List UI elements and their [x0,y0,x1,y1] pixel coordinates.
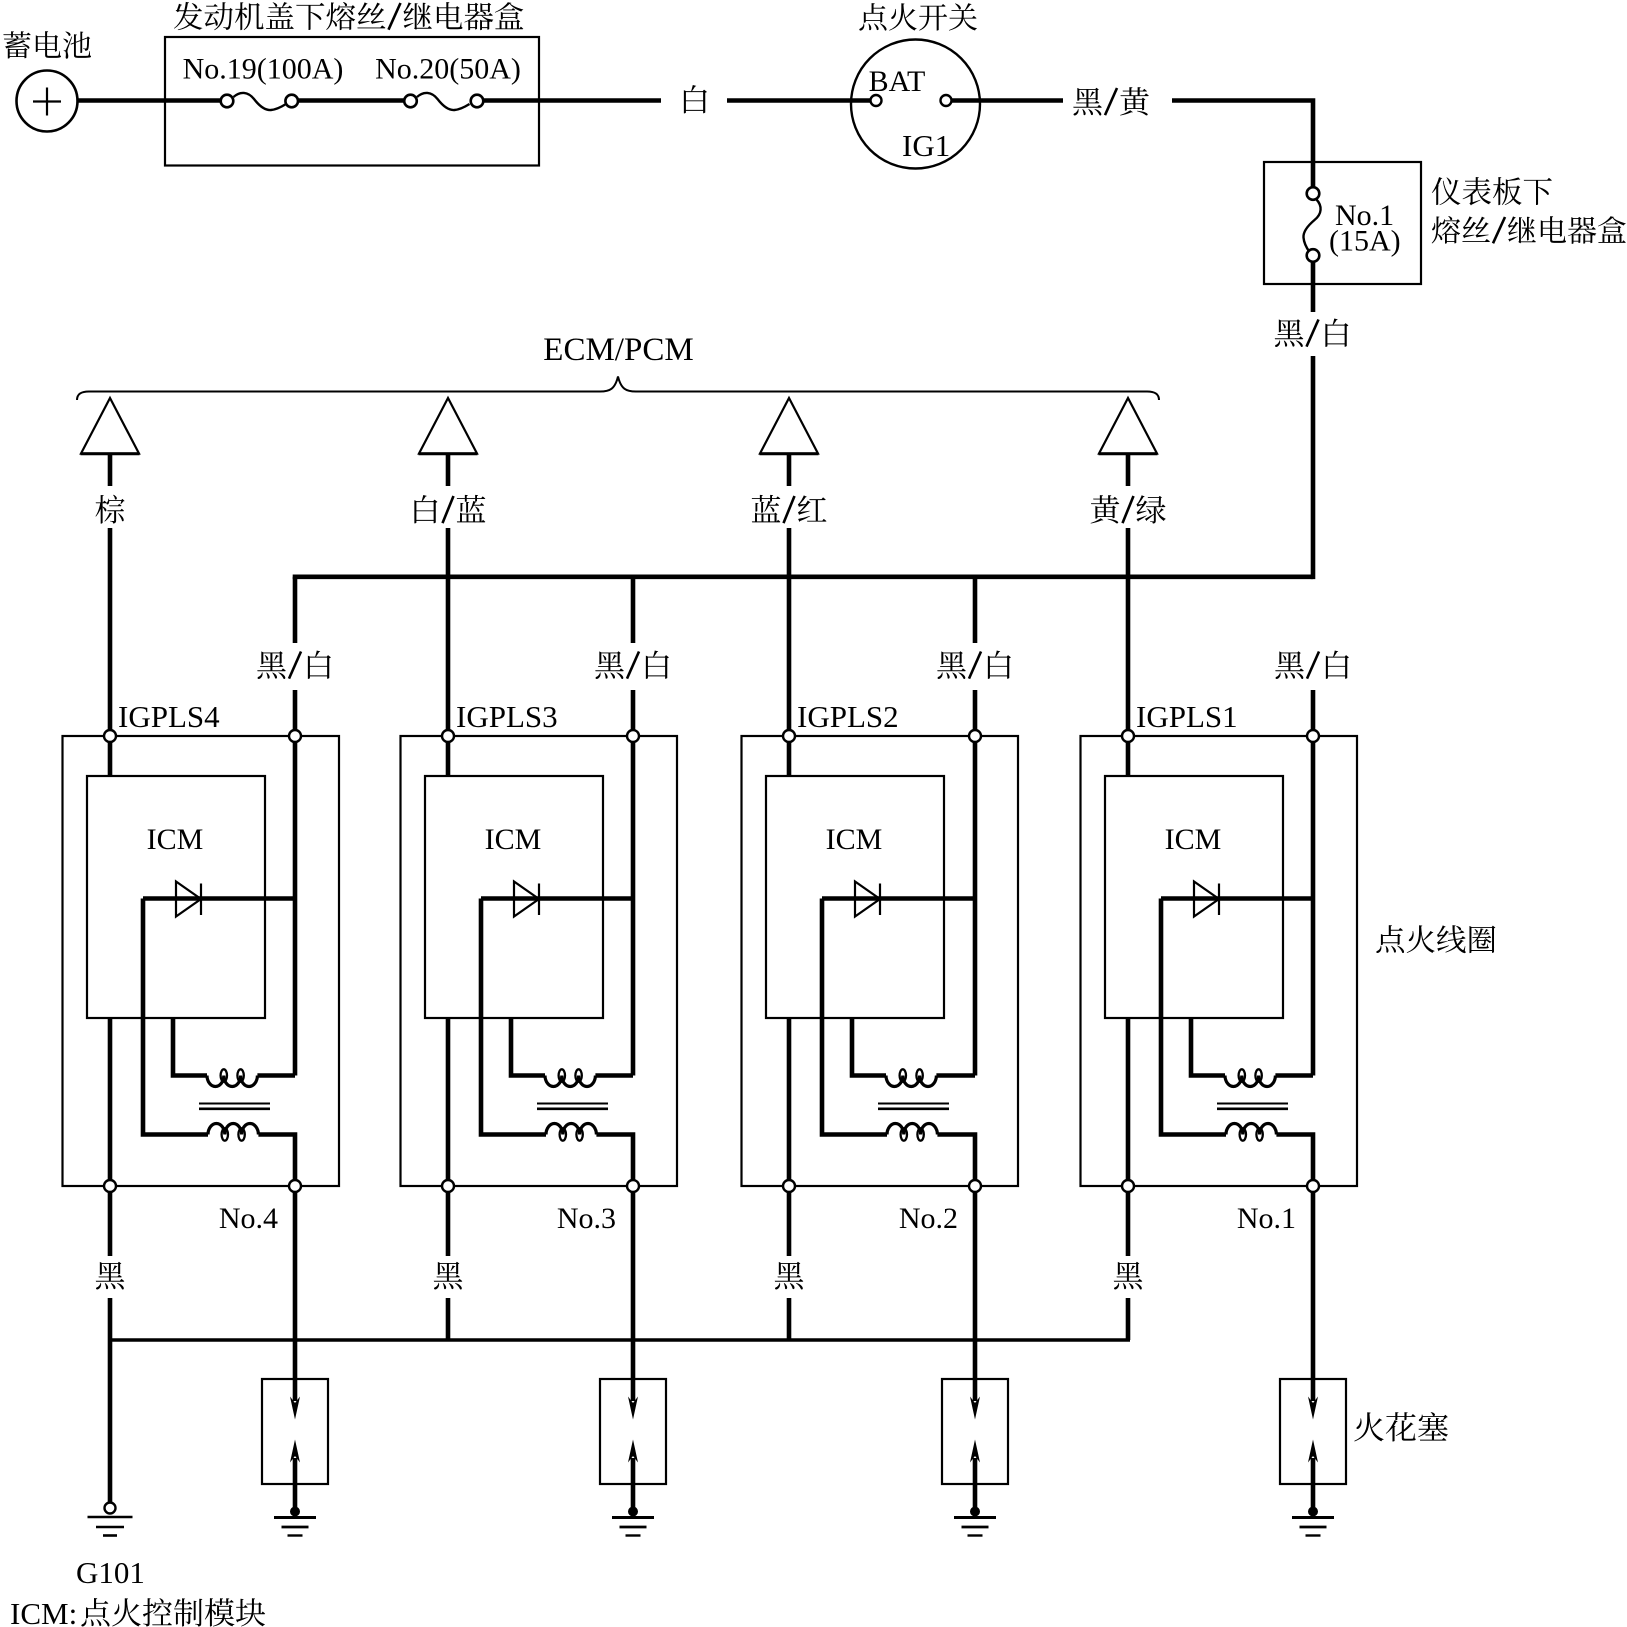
fuse F20 [404,93,483,110]
ground symbol spark 2 [612,1518,654,1536]
diode D1 [176,882,201,917]
wire secondary to spark terminal unit 4 [1276,1135,1313,1187]
ICM label unit 3 [826,823,883,856]
wire IG1 to 黑/黄 label [952,98,1064,103]
svg-text:BAT: BAT [869,65,926,98]
wire ECM column 2 down to coil [446,528,451,736]
ICM label unit 1 [147,823,204,856]
under-dash fuse/relay box [1264,162,1421,284]
wire diode to secondary unit 1 [143,899,208,1135]
svg-text:ICM: ICM [1165,823,1222,856]
wire color label 黑 unit 2 [434,1262,462,1290]
wire color label 黑 unit 1 [96,1262,124,1290]
cylinder label No.3 [557,1202,616,1235]
power wire into coil 4 [1311,690,1316,736]
power wire unit 3 to primary [973,736,978,1076]
ground wire lower unit 3 [787,1298,792,1340]
svg-text:No.20(50A): No.20(50A) [375,53,521,86]
svg-text:No.19(100A): No.19(100A) [183,53,344,86]
svg-text:ICM: ICM [485,823,542,856]
wire primary to power unit 2 [595,1073,633,1078]
coil terminal (1313,736) [1307,730,1319,742]
wire primary to power unit 3 [936,1073,975,1078]
ECM/PCM brace [77,377,1159,401]
wire ICM ground leg unit 2 [446,1018,451,1186]
wire IGPLS3 terminal into ICM [446,736,451,776]
transformer core unit 4 [1217,1104,1288,1109]
wire color label 黄/绿 [1091,495,1166,523]
svg-text:No.2: No.2 [899,1202,958,1235]
coil terminal (789,1186) [783,1180,795,1192]
ground wire upper unit 2 [446,1192,451,1256]
wire ECM column 4 down to coil [1126,528,1131,736]
wire color label 黑/白 unit 1 [257,651,331,679]
coil terminal (1128,736) [1122,730,1134,742]
ICM box unit 1 [87,776,265,1018]
power stub 1 from bus [293,577,298,643]
spark plug 1 box [262,1379,328,1484]
spark wire unit 2 [631,1192,636,1401]
spark wire unit 1 [293,1192,298,1401]
wire ICM ground leg unit 4 [1126,1018,1131,1186]
svg-text:No.3: No.3 [557,1202,616,1235]
wire 白 to ignition switch [727,98,871,103]
ground symbol spark 3 [954,1518,996,1536]
node IGPLS1 label [1136,699,1238,734]
terminal BAT label [869,65,926,98]
ground wire upper unit 1 [108,1192,113,1256]
wire color label 黑 unit 4 [1114,1262,1142,1290]
wire primary to power unit 1 [257,1073,295,1078]
spark plug 2 electrode arrows [628,1397,638,1513]
ignition coil unit 2 box [401,736,678,1186]
ground bus [108,1338,1130,1342]
power stub 3 from bus [973,577,978,643]
wire primary to power unit 4 [1275,1073,1313,1078]
coil terminal (633,1186) [627,1180,639,1192]
spark plug 1 electrode arrows [290,1397,300,1513]
wire between fuses [297,98,405,103]
ground wire lower unit 2 [446,1298,451,1340]
ground symbol spark 4 [1292,1518,1334,1536]
coil terminal (975,1186) [969,1180,981,1192]
svg-text:IGPLS4: IGPLS4 [118,699,220,734]
svg-text:ICM:: ICM: [10,1596,77,1627]
transformer core unit 2 [537,1104,608,1109]
wire IGPLS4 terminal into ICM [108,736,113,776]
junction dot spark 2 [628,1507,638,1517]
wire color label 白/蓝 [414,495,485,524]
svg-text:ICM: ICM [826,823,883,856]
ground wire lower unit 1 [108,1298,113,1503]
battery B1 label 蓄电池 [3,31,91,59]
wire 黑/白 down to bus [1311,356,1316,579]
diode line unit 1 [143,896,295,901]
switch terminal BAT [871,95,882,106]
node IGPLS4 label [118,699,220,734]
coil terminal (1313,1186) [1307,1180,1319,1192]
power wire unit 4 to primary [1311,736,1316,1076]
wire ICM to primary unit 2 [511,1018,545,1076]
wire ICM to primary unit 3 [852,1018,886,1076]
coil terminal (975,736) [969,730,981,742]
svg-text:(15A): (15A) [1329,225,1401,258]
coil terminal (110,1186) [104,1180,116,1192]
svg-text:IGPLS2: IGPLS2 [797,699,899,734]
ICM label unit 2 [485,823,542,856]
switch terminal IG1 [941,95,952,106]
ground name G101 [76,1555,145,1590]
primary winding L2a [545,1069,595,1086]
wire battery to fuse box [78,98,222,103]
power wire unit 2 to primary [631,736,636,1076]
secondary winding L4b [1226,1124,1276,1141]
diode D2 [514,882,539,917]
svg-text:IG1: IG1 [902,128,950,163]
ignition coil unit 4 box [1081,736,1358,1186]
wire IGPLS2 terminal into ICM [787,736,792,776]
wire ICM ground leg unit 3 [787,1018,792,1186]
svg-text:IGPLS3: IGPLS3 [456,699,558,734]
diode line unit 3 [822,896,975,901]
svg-text:No.4: No.4 [219,1202,278,1235]
ground wire upper unit 3 [787,1192,792,1256]
primary winding L1a [207,1069,257,1086]
wire IGPLS1 terminal into ICM [1126,736,1131,776]
coil group label 点火线圈 [1376,925,1495,953]
wire color label 棕 [95,495,124,524]
ECM output connector 2 [419,398,478,486]
spark plug label 火花塞 [1354,1412,1448,1441]
coil terminal (295,1186) [289,1180,301,1192]
wire color label 白 [684,85,707,113]
spark plug 3 box [942,1379,1008,1484]
coil terminal (110,736) [104,730,116,742]
spark plug 2 box [600,1379,666,1484]
cylinder label No.2 [899,1202,958,1235]
wire color label 黑/白 unit 2 [595,651,669,679]
note text 点火控制模块 [81,1598,265,1626]
under-dash box label 熔丝/继电器盒 [1432,216,1626,244]
junction dot spark 1 [290,1507,300,1517]
ground symbol spark 1 [274,1518,316,1536]
node IGPLS2 label [797,699,899,734]
wire color label 黑/白 unit 3 [937,651,1011,679]
coil terminal (789,736) [783,730,795,742]
svg-text:ECM/PCM: ECM/PCM [543,332,693,368]
fuse 15A label [1329,225,1401,258]
fuse No.1 label [1335,199,1394,232]
wire diode to secondary unit 2 [481,899,546,1135]
fuse No.20(50A) label [375,53,521,86]
power wire into coil 2 [631,690,636,736]
transformer core unit 1 [199,1104,270,1109]
junction dot spark 3 [970,1507,980,1517]
wire color label 蓝/红 [752,495,827,523]
diode line unit 2 [481,896,633,901]
svg-text:IGPLS1: IGPLS1 [1136,699,1238,734]
coil terminal (1128,1186) [1122,1180,1134,1192]
secondary winding L3b [887,1124,937,1141]
power wire unit 1 to primary [293,736,298,1076]
primary winding L3a [886,1069,936,1086]
ignition coil unit 3 box [742,736,1019,1186]
spark plug 4 box [1280,1379,1346,1484]
wire secondary to spark terminal unit 2 [596,1135,633,1187]
ground wire upper unit 4 [1126,1192,1131,1256]
wire ICM ground leg unit 1 [108,1018,113,1186]
wire fuse box to 白 label [483,98,661,103]
ground wire lower unit 4 [1126,1298,1131,1340]
ICM label unit 4 [1165,823,1222,856]
spark wire unit 3 [973,1192,978,1401]
svg-text:No.1: No.1 [1237,1202,1296,1235]
battery B1 [17,71,78,132]
ignition coil unit 1 box [63,736,340,1186]
ignition switch SW1 [851,40,980,169]
wire color label 黑 unit 3 [775,1262,803,1290]
wire color label 黑/白 right [1275,319,1349,347]
fuse No.19(100A) label [183,53,344,86]
wire secondary to spark terminal unit 3 [937,1135,975,1187]
ICM box unit 4 [1105,776,1283,1018]
wire ECM column 1 down to coil [108,528,113,736]
wire diode to secondary unit 4 [1161,899,1226,1135]
coil terminal (295,736) [289,730,301,742]
ECM/PCM label [543,332,693,368]
ECM output connector 1 [81,398,140,486]
ground G101 terminal [105,1503,116,1514]
ICM box unit 3 [766,776,944,1018]
fuse F19 [221,93,298,110]
coil terminal (448,1186) [442,1180,454,1192]
wire ECM column 3 down to coil [787,528,792,736]
diode D4 [1194,882,1219,917]
ground symbol G101 [88,1517,133,1536]
under-hood fuse/relay box [165,37,539,166]
junction dot spark 4 [1308,1507,1318,1517]
svg-text:ICM: ICM [147,823,204,856]
terminal IG1 label [902,128,950,163]
spark plug 4 electrode arrows [1308,1397,1318,1513]
wire fuse No.1 to 黑/白 label [1311,262,1316,312]
svg-text:G101: G101 [76,1555,145,1590]
wire color label 黑/黄 [1073,87,1149,115]
transformer core unit 3 [878,1104,949,1109]
coil terminal (448,736) [442,730,454,742]
power wire into coil 3 [973,690,978,736]
wire ICM to primary unit 1 [173,1018,207,1076]
note ICM label [10,1596,77,1627]
diode line unit 4 [1161,896,1313,901]
power wire into coil 1 [293,690,298,736]
coil terminal (633,736) [627,730,639,742]
spark wire unit 4 [1311,1192,1316,1401]
cylinder label No.1 [1237,1202,1296,1235]
fuse No.1(15A) [1303,187,1320,262]
node IGPLS3 label [456,699,558,734]
wire ICM to primary unit 4 [1191,1018,1225,1076]
wire diode to secondary unit 3 [822,899,887,1135]
ignition switch label 点火开关 [859,3,977,31]
ECM output connector 3 [760,398,819,486]
wire secondary to spark terminal unit 1 [258,1135,295,1187]
power bus 黑/白 [293,574,1313,579]
secondary winding L2b [546,1124,596,1141]
diode D3 [855,882,880,917]
secondary winding L1b [208,1123,258,1140]
ECM output connector 4 [1099,398,1158,486]
wire color label 黑/白 unit 4 [1275,651,1349,679]
power stub 2 from bus [631,577,636,643]
under-dash box label 仪表板下 [1432,177,1552,205]
cylinder label No.4 [219,1202,278,1235]
primary winding L4a [1225,1069,1275,1086]
ICM box unit 2 [425,776,603,1018]
under-hood fuse/relay box label 发动机盖下熔丝/继电器盒 [174,2,523,30]
wire 黑/黄 to under-dash fuse box [1172,101,1313,188]
spark plug 3 electrode arrows [970,1397,980,1513]
